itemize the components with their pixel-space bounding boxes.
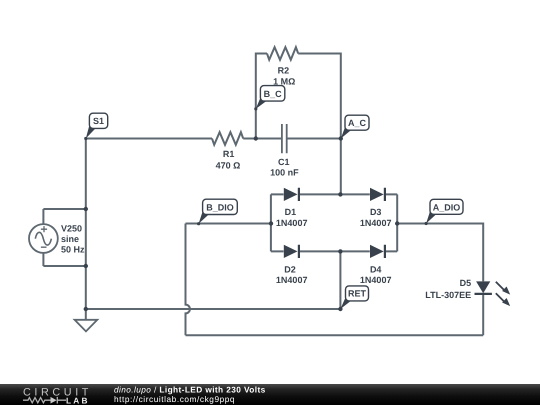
svg-text:1N4007: 1N4007: [360, 218, 392, 228]
svg-text:http://circuitlab.com/ckg9ppq: http://circuitlab.com/ckg9ppq: [114, 394, 235, 404]
svg-text:1N4007: 1N4007: [276, 275, 308, 285]
svg-text:D5: D5: [460, 278, 472, 288]
svg-text:sine: sine: [61, 234, 79, 244]
svg-text:100 nF: 100 nF: [270, 167, 299, 177]
svg-text:R2: R2: [278, 65, 290, 75]
svg-text:LAB: LAB: [66, 395, 90, 405]
svg-text:RET: RET: [348, 289, 367, 299]
svg-text:V250: V250: [61, 223, 82, 233]
svg-text:D4: D4: [370, 265, 382, 275]
svg-text:D2: D2: [284, 265, 296, 275]
svg-text:LTL-307EE: LTL-307EE: [425, 290, 471, 300]
svg-text:A_DIO: A_DIO: [433, 202, 461, 212]
svg-text:B_C: B_C: [264, 89, 283, 99]
svg-text:1N4007: 1N4007: [276, 218, 308, 228]
svg-text:D1: D1: [285, 207, 297, 217]
svg-text:1N4007: 1N4007: [360, 275, 392, 285]
svg-text:R1: R1: [223, 149, 235, 159]
svg-text:C1: C1: [278, 157, 290, 167]
svg-text:D3: D3: [370, 207, 382, 217]
svg-text:B_DIO: B_DIO: [206, 202, 234, 212]
svg-text:S1: S1: [93, 116, 104, 126]
svg-text:470 Ω: 470 Ω: [216, 161, 241, 171]
svg-text:50 Hz: 50 Hz: [61, 245, 85, 255]
svg-text:A_C: A_C: [348, 118, 367, 128]
svg-text:1 MΩ: 1 MΩ: [273, 77, 295, 87]
